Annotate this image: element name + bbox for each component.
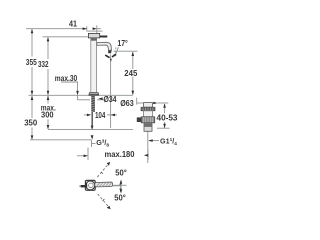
svg-text:41: 41 [69,19,77,28]
svg-text:Ø63: Ø63 [120,99,134,108]
svg-text:355: 355 [26,58,37,67]
svg-text:50°: 50° [115,169,127,178]
svg-text:104: 104 [95,111,106,120]
svg-text:max.180: max.180 [105,150,136,159]
svg-text:17°: 17° [117,39,128,48]
svg-text:40-53: 40-53 [157,113,179,122]
svg-text:300: 300 [41,111,54,120]
svg-text:332: 332 [38,60,49,69]
svg-text:350: 350 [24,119,38,128]
svg-text:max.30: max.30 [55,74,78,83]
svg-text:245: 245 [124,69,138,78]
svg-text:50°: 50° [114,194,126,203]
svg-text:Ø34: Ø34 [104,95,117,104]
